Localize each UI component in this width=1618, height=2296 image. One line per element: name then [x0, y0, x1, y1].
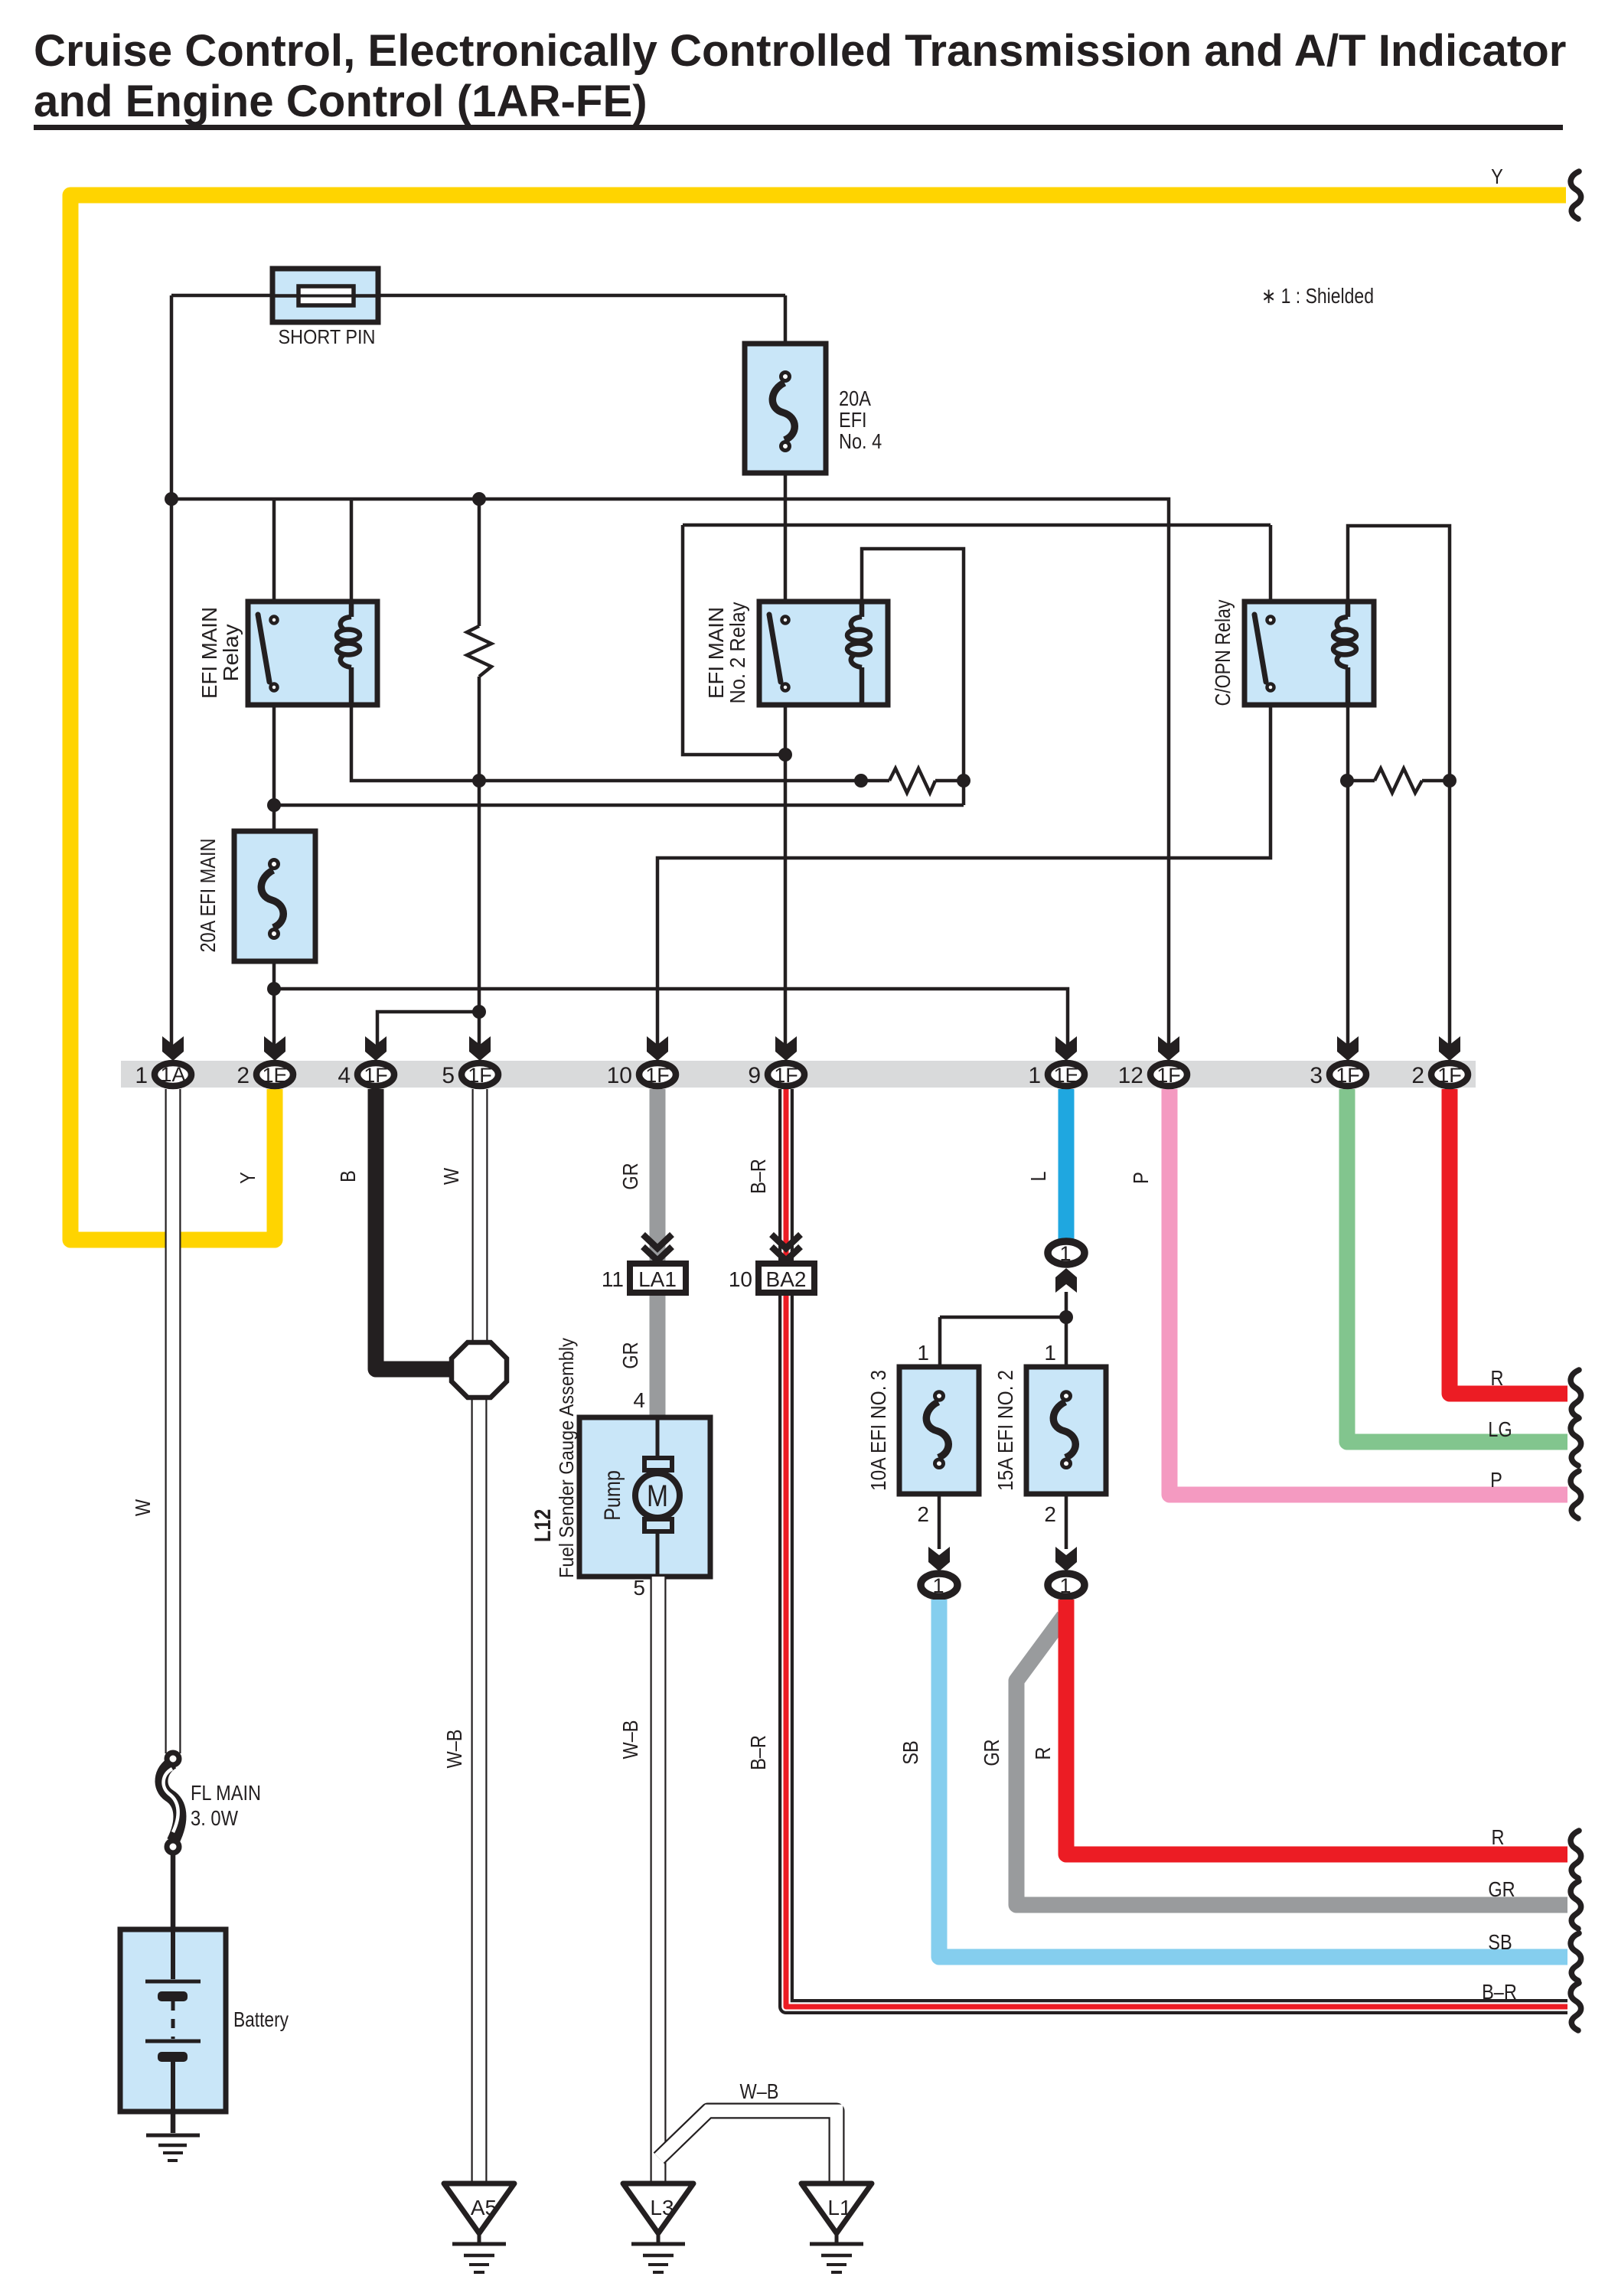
svg-text:2: 2 [917, 1502, 929, 1526]
svg-text:Y: Y [1491, 165, 1503, 188]
svg-text:2: 2 [1411, 1063, 1424, 1088]
svg-text:2: 2 [237, 1063, 250, 1088]
svg-text:P: P [1490, 1468, 1502, 1492]
svg-text:1F: 1F [1156, 1064, 1181, 1087]
svg-text:1: 1 [1028, 1063, 1041, 1088]
svg-text:Pump: Pump [600, 1470, 625, 1521]
svg-text:3: 3 [1310, 1063, 1323, 1088]
svg-text:9: 9 [748, 1063, 761, 1088]
svg-text:Cruise Control, Electronically: Cruise Control, Electronically Controlle… [34, 26, 1566, 76]
svg-text:Y: Y [236, 1172, 259, 1184]
svg-text:Relay: Relay [219, 625, 243, 682]
svg-text:20A EFI MAIN: 20A EFI MAIN [196, 839, 220, 953]
svg-text:GR: GR [618, 1342, 642, 1368]
svg-text:Battery: Battery [233, 2007, 289, 2031]
svg-text:15A EFI NO. 2: 15A EFI NO. 2 [993, 1370, 1017, 1491]
svg-text:1A: 1A [160, 1063, 185, 1086]
svg-text:GR: GR [1488, 1877, 1515, 1901]
svg-text:1F: 1F [774, 1064, 798, 1087]
svg-text:R: R [1492, 1825, 1505, 1849]
svg-text:10A EFI NO. 3: 10A EFI NO. 3 [866, 1370, 890, 1491]
svg-text:1F: 1F [364, 1064, 388, 1087]
svg-text:L12: L12 [530, 1509, 556, 1542]
svg-text:W–B: W–B [618, 1720, 642, 1760]
svg-text:SB: SB [1488, 1930, 1512, 1954]
svg-text:4: 4 [633, 1388, 645, 1412]
svg-text:5: 5 [442, 1063, 455, 1088]
svg-text:and Engine Control (1AR-FE): and Engine Control (1AR-FE) [34, 77, 648, 126]
svg-text:1E: 1E [1053, 1064, 1078, 1087]
svg-text:R: R [1031, 1747, 1055, 1760]
svg-text:∗ 1 : Shielded: ∗ 1 : Shielded [1261, 284, 1374, 308]
svg-text:FL MAIN: FL MAIN [191, 1781, 261, 1805]
svg-text:No. 4: No. 4 [839, 429, 882, 453]
svg-text:3. 0W: 3. 0W [191, 1806, 238, 1830]
svg-text:1F: 1F [1336, 1064, 1360, 1087]
svg-text:LG: LG [1488, 1417, 1512, 1441]
svg-text:1F: 1F [1437, 1064, 1462, 1087]
svg-text:B–R: B–R [746, 1159, 770, 1194]
svg-text:SB: SB [899, 1740, 922, 1764]
svg-text:L3: L3 [650, 2196, 674, 2219]
svg-text:11: 11 [602, 1267, 624, 1291]
svg-text:EFI: EFI [839, 408, 867, 432]
svg-text:1E: 1E [262, 1064, 287, 1087]
svg-text:W: W [439, 1167, 463, 1185]
svg-text:1: 1 [917, 1341, 929, 1365]
svg-text:C/OPN Relay: C/OPN Relay [1211, 600, 1235, 706]
svg-text:1: 1 [1044, 1341, 1056, 1365]
svg-text:W–B: W–B [442, 1730, 466, 1769]
svg-text:P: P [1129, 1172, 1153, 1184]
svg-text:2: 2 [1044, 1502, 1056, 1526]
svg-text:W–B: W–B [740, 2079, 779, 2103]
svg-text:10: 10 [607, 1063, 632, 1088]
svg-text:GR: GR [618, 1163, 642, 1189]
svg-text:W: W [131, 1499, 155, 1516]
svg-text:EFI MAIN: EFI MAIN [704, 607, 728, 699]
svg-text:B–R: B–R [1482, 1980, 1517, 2004]
svg-text:1: 1 [1059, 1574, 1071, 1597]
svg-text:R: R [1491, 1366, 1504, 1390]
svg-text:L: L [1026, 1171, 1050, 1181]
svg-text:12: 12 [1118, 1063, 1143, 1088]
svg-text:LA1: LA1 [638, 1267, 677, 1291]
svg-text:M: M [647, 1479, 668, 1513]
svg-text:20A: 20A [839, 386, 871, 410]
svg-text:10: 10 [729, 1267, 752, 1291]
svg-text:1: 1 [1059, 1242, 1071, 1265]
svg-text:1F: 1F [468, 1064, 492, 1087]
svg-text:A5: A5 [471, 2196, 497, 2219]
svg-text:BA2: BA2 [766, 1267, 807, 1291]
svg-text:EFI MAIN: EFI MAIN [197, 607, 221, 699]
svg-text:1: 1 [135, 1063, 148, 1088]
svg-text:1F: 1F [645, 1064, 670, 1087]
svg-text:1: 1 [932, 1574, 944, 1597]
svg-text:L1: L1 [827, 2196, 851, 2219]
svg-text:5: 5 [633, 1576, 645, 1600]
svg-text:B: B [336, 1170, 360, 1182]
svg-text:Fuel Sender Gauge Assembly: Fuel Sender Gauge Assembly [555, 1338, 578, 1578]
svg-text:B–R: B–R [746, 1735, 770, 1770]
svg-text:GR: GR [980, 1739, 1003, 1766]
svg-text:No. 2 Relay: No. 2 Relay [726, 602, 749, 704]
svg-text:SHORT PIN: SHORT PIN [279, 325, 376, 348]
svg-text:4: 4 [338, 1063, 351, 1088]
